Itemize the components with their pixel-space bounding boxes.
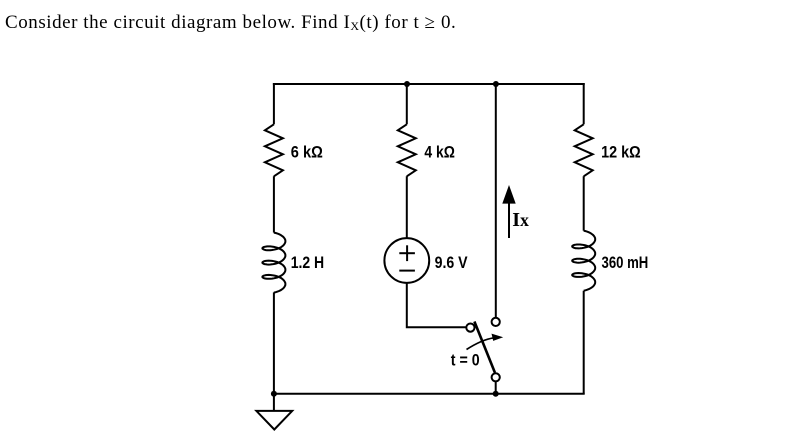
svg-text:360 mH: 360 mH: [602, 254, 649, 272]
wire right branch lower: [583, 291, 585, 394]
voltage source V1: [384, 238, 429, 283]
wire right branch upper: [583, 83, 585, 124]
current arrow Ix: [502, 185, 515, 238]
svg-text:9.6 V: 9.6 V: [435, 254, 468, 272]
wire switch to bottom rail: [495, 381, 497, 393]
junction dot bottom left: [271, 391, 277, 397]
inductor L1 1.2 H: [262, 233, 285, 293]
svg-text:12 kΩ: 12 kΩ: [601, 144, 641, 162]
wire bottom rail: [273, 393, 585, 395]
svg-text:1.2 H: 1.2 H: [291, 254, 325, 272]
wire left branch upper: [273, 83, 275, 124]
junction dot top Ix: [493, 81, 499, 87]
wire left branch middle: [273, 176, 275, 232]
wire right branch middle: [583, 176, 585, 231]
svg-text:4 kΩ: 4 kΩ: [424, 144, 455, 162]
wire left branch lower: [273, 292, 275, 393]
wire top rail: [273, 83, 585, 85]
svg-text:Ix: Ix: [512, 209, 529, 231]
junction dot top middle: [404, 81, 410, 87]
switch SW1: [466, 318, 503, 382]
wire middle branch upper: [406, 84, 408, 124]
resistor R2 4 kOhm: [398, 124, 416, 176]
resistor R1 6 kOhm: [265, 124, 283, 176]
resistor R3 12 kOhm: [575, 124, 593, 176]
wire middle branch between resistor and source: [406, 176, 408, 238]
junction dot bottom switch: [493, 391, 499, 397]
inductor L2 360 mH: [572, 231, 595, 291]
wire Ix branch: [495, 84, 497, 318]
svg-text:6 kΩ: 6 kΩ: [291, 144, 323, 162]
ground: [256, 411, 292, 430]
title text: [5, 12, 456, 34]
wire ground stub: [273, 394, 275, 411]
svg-text:t = 0: t = 0: [451, 351, 480, 369]
wire middle branch below source to switch: [407, 283, 466, 327]
